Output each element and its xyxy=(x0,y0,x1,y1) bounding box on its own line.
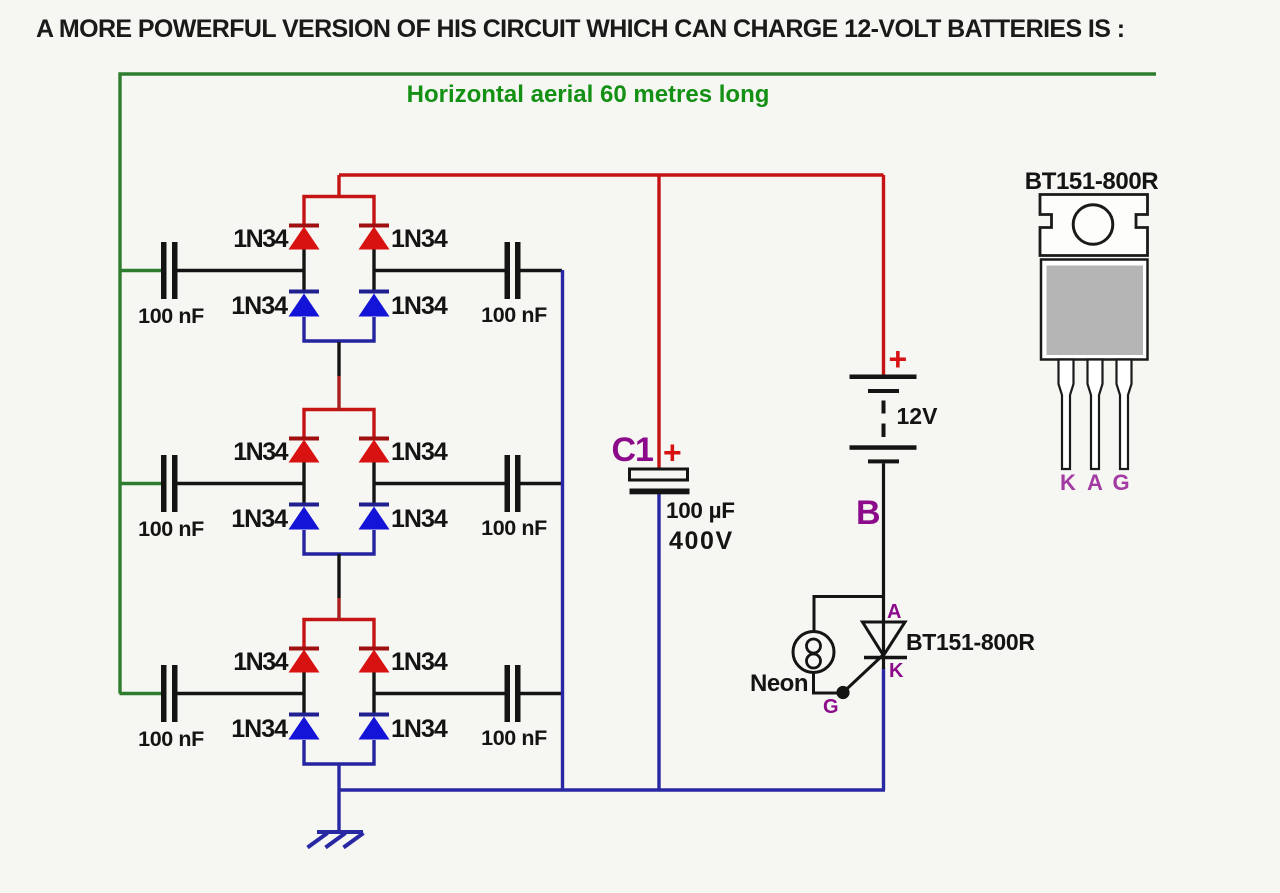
svg-text:A: A xyxy=(1087,470,1103,495)
svg-text:A: A xyxy=(887,601,901,623)
svg-text:A MORE POWERFUL VERSION OF HIS: A MORE POWERFUL VERSION OF HIS CIRCUIT W… xyxy=(36,15,1124,43)
svg-text:BT151-800R: BT151-800R xyxy=(1025,168,1158,195)
svg-text:Neon: Neon xyxy=(750,670,808,697)
svg-text:400V: 400V xyxy=(669,527,734,555)
svg-text:12V: 12V xyxy=(897,403,939,429)
svg-text:BT151-800R: BT151-800R xyxy=(906,629,1035,655)
svg-text:C1: C1 xyxy=(612,431,654,469)
svg-text:G: G xyxy=(823,696,839,718)
svg-text:+: + xyxy=(663,435,682,471)
svg-text:G: G xyxy=(1112,470,1129,495)
svg-text:+: + xyxy=(889,341,908,377)
svg-text:B: B xyxy=(856,494,881,532)
svg-text:K: K xyxy=(1060,470,1076,495)
svg-text:K: K xyxy=(889,660,904,682)
svg-text:Horizontal aerial 60 metres lo: Horizontal aerial 60 metres long xyxy=(407,81,770,108)
svg-text:100 µF: 100 µF xyxy=(666,498,735,523)
